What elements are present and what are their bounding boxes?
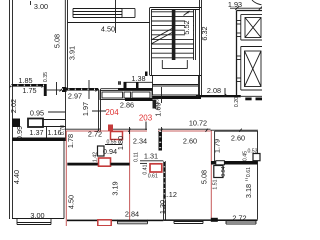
svg-text:6.32: 6.32 (200, 26, 209, 40)
svg-text:3.00: 3.00 (30, 211, 44, 220)
svg-text:1.69: 1.69 (154, 102, 163, 116)
svg-text:1.75: 1.75 (22, 86, 36, 95)
svg-text:1.85: 1.85 (18, 76, 32, 85)
svg-text:4.50: 4.50 (67, 195, 76, 209)
svg-text:0.70: 0.70 (60, 125, 66, 135)
svg-text:0.99: 0.99 (15, 126, 24, 140)
svg-text:5.52: 5.52 (182, 20, 191, 34)
svg-text:0.11: 0.11 (134, 152, 140, 162)
svg-text:1.38: 1.38 (131, 74, 145, 83)
svg-text:1.97: 1.97 (81, 102, 90, 116)
svg-text:2.08: 2.08 (207, 86, 221, 95)
apt 202 right (211, 129, 259, 131)
apt 204 interior (111, 132, 123, 140)
svg-text:2.86: 2.86 (120, 101, 134, 110)
svg-text:2.60: 2.60 (183, 137, 197, 146)
svg-text:4.50: 4.50 (101, 25, 115, 34)
svg-text:1.12: 1.12 (163, 190, 177, 199)
svg-text:3.00: 3.00 (34, 2, 48, 11)
staircase (149, 8, 151, 76)
svg-text:1.31: 1.31 (144, 152, 158, 161)
svg-text:10.72: 10.72 (189, 119, 207, 128)
svg-text:0.94: 0.94 (103, 147, 117, 156)
svg-text:=: = (118, 81, 124, 84)
svg-text:0.61: 0.61 (246, 167, 252, 177)
svg-text:1.78: 1.78 (66, 134, 75, 148)
red outlines of apartments 203 and 204 (67, 130, 148, 132)
svg-text:3.91: 3.91 (68, 46, 77, 60)
elevator shafts (236, 11, 238, 96)
svg-text:0.53: 0.53 (247, 149, 257, 155)
svg-text:1.80: 1.80 (116, 136, 125, 150)
svg-text:2.84: 2.84 (125, 210, 139, 219)
outer walls and top-left rooms (9, 0, 11, 219)
svg-text:2.34: 2.34 (133, 137, 147, 146)
svg-text:0.94: 0.94 (221, 166, 227, 176)
red label leaders (92, 110, 106, 112)
svg-text:1.30: 1.30 (158, 200, 167, 214)
svg-text:4.40: 4.40 (12, 170, 21, 184)
svg-text:3.18: 3.18 (244, 184, 253, 198)
svg-text:203: 203 (139, 114, 153, 123)
svg-text:2.72: 2.72 (232, 214, 246, 223)
svg-text:2.72: 2.72 (88, 130, 102, 139)
svg-text:2.02: 2.02 (9, 99, 18, 113)
svg-text:5.08: 5.08 (53, 34, 62, 48)
svg-text:5.08: 5.08 (200, 170, 209, 184)
svg-text:1.79: 1.79 (213, 139, 222, 153)
left apartment bathroom walls and window (11, 84, 44, 87)
svg-text:2.60: 2.60 (231, 134, 245, 143)
svg-text:0.35: 0.35 (43, 72, 49, 82)
svg-text:1.93: 1.93 (228, 0, 242, 9)
svg-text:0.95: 0.95 (30, 109, 44, 118)
corridor walls and cabinets (62, 88, 98, 91)
apt 203 interior (159, 131, 163, 151)
svg-text:1.51: 1.51 (213, 179, 219, 189)
svg-text:1.42: 1.42 (93, 152, 99, 162)
svg-text:3.19: 3.19 (111, 181, 120, 195)
svg-text:2.97: 2.97 (68, 92, 82, 101)
svg-text:0.61: 0.61 (148, 174, 158, 180)
svg-text:=: = (245, 178, 248, 184)
svg-text:0.20: 0.20 (234, 97, 240, 107)
svg-text:204: 204 (105, 108, 119, 117)
svg-text:1.37: 1.37 (29, 128, 43, 137)
